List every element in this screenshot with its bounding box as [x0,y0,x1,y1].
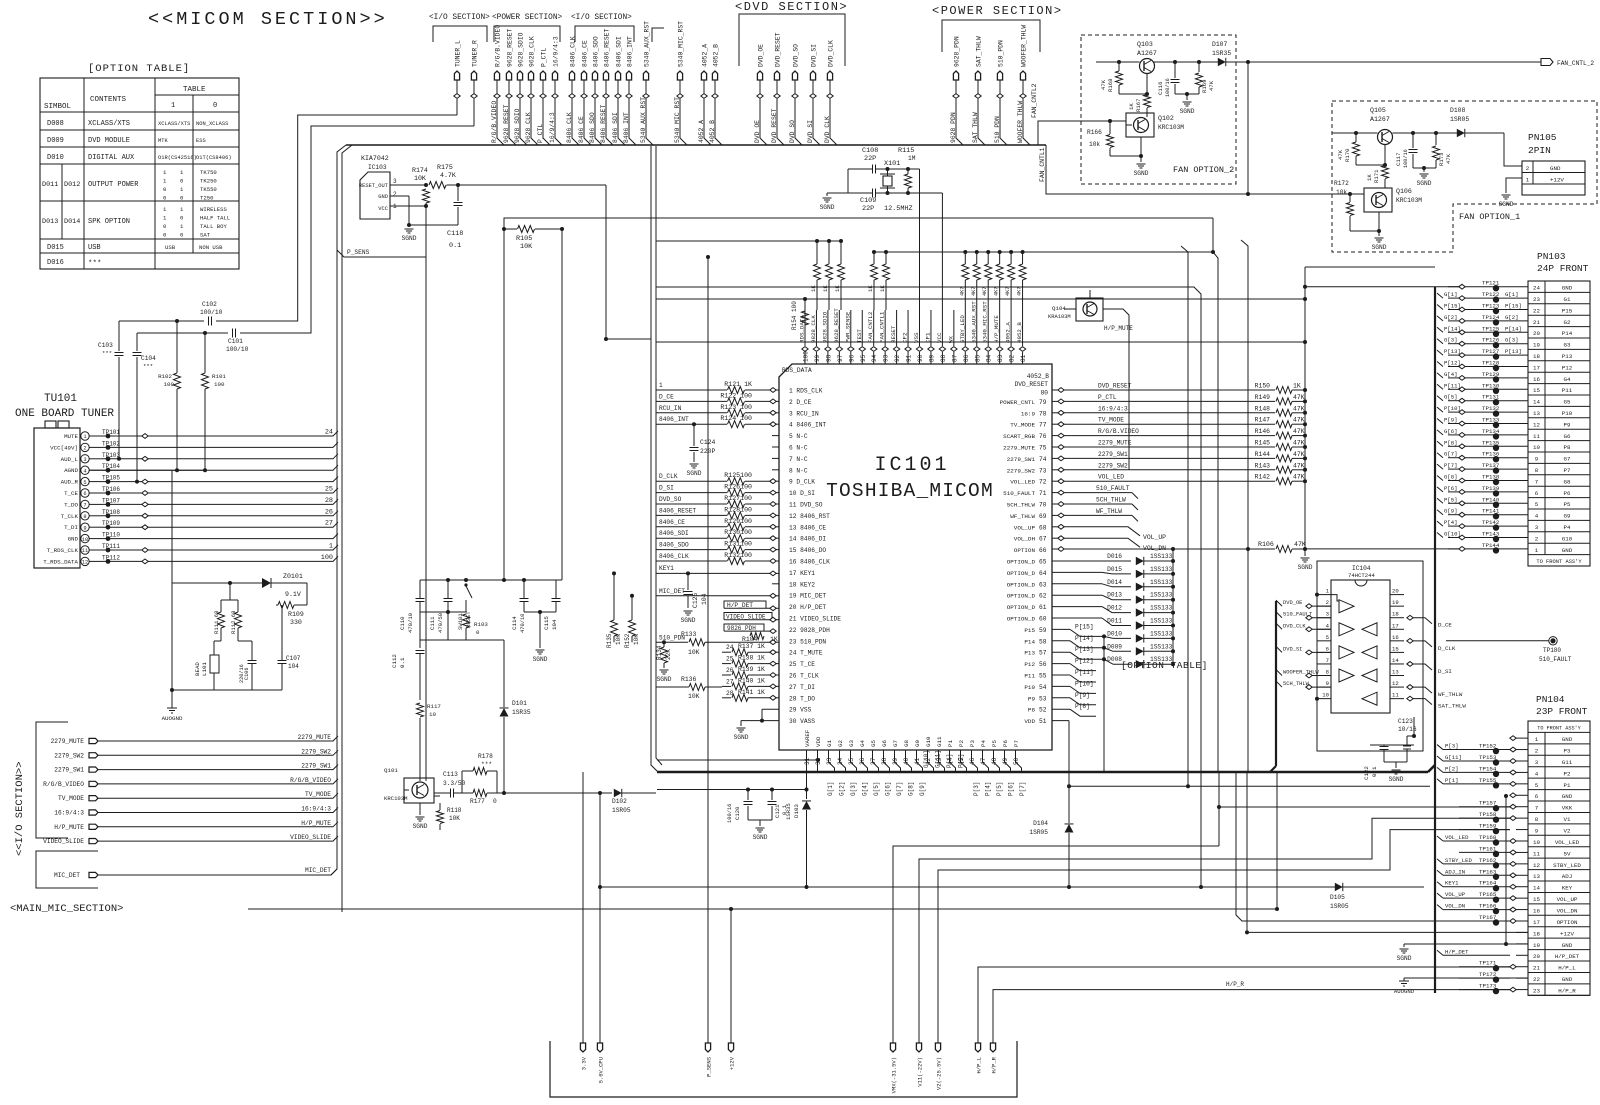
svg-text:AGND: AGND [64,467,78,474]
IC104 pin 4 left [1317,622,1331,629]
svg-text:XCLASS/XTS: XCLASS/XTS [158,121,190,127]
svg-text:8406_CLK: 8406_CLK [570,36,577,67]
svg-text:A1267: A1267 [1370,116,1390,123]
IC101 top pin 90 [913,169,924,364]
svg-text:R101: R101 [212,373,226,380]
resistor R169 47K [1196,62,1216,94]
svg-text:P4: P4 [980,740,987,747]
svg-text:G1: G1 [1564,296,1571,303]
svg-text:AUOGND: AUOGND [1394,988,1415,995]
svg-text:OPTION_D: OPTION_D [1007,581,1036,588]
svg-text:SGND: SGND [1397,955,1412,962]
svg-text:2: 2 [1535,535,1539,542]
svg-text:R143: R143 [1255,462,1271,469]
IC104 pin 7 left [1317,657,1331,664]
svg-text:KIA7042: KIA7042 [361,155,389,162]
svg-text:2279_MUTE: 2279_MUTE [298,734,332,741]
ground AUOGND PN104 22 [1394,978,1528,995]
test point TP136 row [1437,451,1528,463]
net label G[1] [827,782,834,796]
connector pin 4052_A [698,44,711,145]
wire reset rail to C112 [419,640,421,648]
IC104 pin 1 left [1317,588,1331,595]
PN104 row 13 [1437,868,1528,880]
svg-text:RDS_DATA: RDS_DATA [799,315,806,343]
svg-text:VOL_UP: VOL_UP [1445,891,1466,898]
svg-text:1SS133: 1SS133 [1150,618,1173,625]
svg-text:1SR35: 1SR35 [512,709,531,716]
connector pin TUNER_R [471,40,479,126]
IC101 bottom pin 39 G7 [892,740,901,772]
svg-text:VOL_DN: VOL_DN [1557,907,1578,914]
net label G[3] [850,782,857,796]
IC101 right pin 67 VOL_DH [1014,536,1047,543]
svg-text:100: 100 [321,554,333,562]
net label P[6] [1008,782,1015,796]
transistor Q106 KRC103M [1364,185,1422,212]
svg-text:1K: 1K [1128,103,1135,110]
tuner pin 1 MUTE [64,429,338,441]
svg-text:8: 8 [1535,467,1539,474]
section label POWER SECTION small [492,14,563,22]
svg-text:8406_CE: 8406_CE [582,40,589,67]
svg-text:11: 11 [1533,850,1540,857]
svg-text:OUTPUT POWER: OUTPUT POWER [88,181,139,189]
svg-text:10K: 10K [520,243,533,251]
test point TP180 510_FAULT [1539,637,1572,663]
svg-text:24 T_MUTE: 24 T_MUTE [789,650,823,657]
svg-text:H/P_R: H/P_R [991,1056,998,1073]
svg-text:D_CE: D_CE [659,393,674,400]
svg-text:5CH_THLW: 5CH_THLW [1283,681,1310,687]
svg-text:P[15]: P[15] [1505,303,1522,310]
svg-text:G10: G10 [1562,535,1573,542]
connector pin 8406_RESET [600,28,613,145]
svg-text:G[2]: G[2] [1505,314,1518,321]
io row 16:9/4:3 [54,806,338,817]
svg-text:G[3]: G[3] [1505,337,1518,344]
svg-text:TP104: TP104 [102,463,120,470]
svg-text:20: 20 [1533,953,1540,960]
wire Q103 collector rail [1096,60,1140,64]
svg-text:SGND: SGND [1180,108,1195,115]
IC104 pin 6 left [1317,645,1331,652]
svg-text:D_CE: D_CE [1438,622,1452,629]
wire IC104 input 5CH_THLW [1276,681,1331,689]
svg-text:13: 13 [1533,410,1540,417]
IC101 right pin 59 P15 [1024,627,1046,634]
svg-text:4: 4 [1535,770,1539,777]
svg-text:R126100: R126100 [724,484,752,491]
IC101 right pin 51 VDD [1024,718,1046,725]
wire VIDEO_SLIDE row label [724,613,779,623]
svg-text:[OPTION TABLE]: [OPTION TABLE] [1121,660,1208,671]
ground AUOGND [162,690,183,722]
wire IC104 input WOOFER_THLW [1276,670,1331,678]
svg-text:4K7: 4K7 [994,287,1000,296]
svg-text:D015: D015 [47,244,64,252]
svg-text:7: 7 [83,503,86,509]
PN104 row 22 [1459,971,1528,983]
svg-text:R/G/B_VIDEO: R/G/B_VIDEO [290,777,331,784]
net label G[2] [839,782,846,796]
svg-text:6: 6 [1326,645,1329,652]
PN104 row 11 [1459,845,1528,857]
svg-text:10K: 10K [688,693,700,700]
IC101 left pin 23 510_PDN [789,638,826,645]
svg-text:G5: G5 [870,740,877,747]
wire R118 net [434,795,440,797]
wire R105 branch down [503,229,505,580]
svg-text:2279_SW2: 2279_SW2 [1007,467,1036,474]
resistor R154 100 [791,297,809,330]
svg-text:ADJ_IN: ADJ_IN [1445,868,1465,875]
svg-text:D008: D008 [47,120,64,128]
svg-text:TOSHIBA_MICOM: TOSHIBA_MICOM [826,480,994,502]
connector pin WOOFER_THLW [1017,25,1030,145]
svg-text:47K: 47K [1293,405,1305,412]
diode D008 1SS133 [1107,656,1175,668]
svg-text:P8: P8 [1564,444,1571,451]
svg-text:H/P_L: H/P_L [1558,965,1576,972]
svg-text:17 KEY1: 17 KEY1 [789,570,815,577]
IC101 left pin 2 D_CE [789,399,812,406]
resistor R144 47K [1255,451,1307,462]
test point TP134 row [1437,428,1528,440]
resistor R105 10K [502,226,564,252]
wire y887 long [600,886,1424,888]
svg-text:4K7: 4K7 [1005,287,1011,296]
svg-text:C123: C123 [1398,718,1413,725]
svg-text:SAT: SAT [200,232,211,239]
svg-text:C111: C111 [429,616,436,630]
svg-text:51: 51 [1039,718,1047,725]
svg-text:10k: 10k [1089,141,1100,148]
svg-text:2279_SW1: 2279_SW1 [54,767,84,774]
resistor R101 100 [202,333,227,472]
PN104 row 2 [1437,743,1528,755]
svg-text:11: 11 [1533,433,1540,440]
wire 9828_PDH row label [724,624,778,643]
IC101 right pin 73 2279_SW2 [1007,467,1047,474]
svg-text:H/P_DET: H/P_DET [1445,948,1469,955]
resistor R143 47K [1255,462,1307,473]
svg-text:14: 14 [1533,885,1540,892]
svg-text:FAN_CNTL2: FAN_CNTL2 [1031,83,1038,118]
svg-text:8406_RESET: 8406_RESET [659,507,696,514]
wire IC104 output D_SI [1407,662,1452,675]
svg-text:P10: P10 [1024,684,1035,691]
svg-text:G11: G11 [1562,759,1573,766]
svg-text:C115: C115 [543,616,550,630]
IC101 bottom pin 33 G1 [826,740,835,772]
wire V11 run [919,818,1510,1041]
diode D101 1SR35 [500,640,531,793]
svg-text:R128100: R128100 [724,506,752,513]
resistor R103 0 [463,614,489,640]
svg-text:D013: D013 [1107,592,1122,599]
svg-text:KEY1: KEY1 [659,565,674,572]
net label P[2] [958,754,965,768]
svg-text:D016: D016 [1107,553,1122,560]
test point TP135 row [1437,439,1528,451]
svg-text:TP109: TP109 [102,520,120,527]
svg-text:VDD: VDD [1024,718,1035,725]
svg-text:C109: C109 [860,197,876,205]
resistor R173 47K [1433,133,1453,168]
wire x600 vertical [598,793,602,889]
svg-text:D101: D101 [512,700,527,707]
wire row P[9] [1052,692,1096,705]
svg-text:1M: 1M [908,155,916,162]
svg-text:ESS: ESS [196,138,206,144]
IC104 pin 8 left [1317,669,1331,676]
svg-text:50: 50 [1013,757,1020,765]
test point TP142 row [1437,519,1528,531]
resistor R146 47K [1255,428,1307,439]
svg-text:G2: G2 [1564,319,1571,326]
svg-text:9828_CLK: 9828_CLK [810,315,817,343]
svg-text:P1: P1 [1564,782,1571,789]
svg-text:SAT_THLW: SAT_THLW [1438,703,1466,710]
svg-text:R142: R142 [1255,474,1271,481]
svg-text:13: 13 [1533,873,1540,880]
IC101 bottom pin 32 VDD [815,736,822,772]
wire Q103 base [1119,74,1149,96]
transistor Q101 KRC103M [384,767,434,803]
test point TP123 row [1437,303,1528,315]
svg-text:D_CLK: D_CLK [659,473,678,480]
svg-text:104: 104 [701,593,708,605]
svg-text:R127100: R127100 [724,495,752,502]
svg-text:9.1V: 9.1V [285,591,301,598]
wire x562 down [561,229,563,580]
svg-text:58: 58 [1039,638,1047,645]
svg-text:P3: P3 [969,740,976,747]
svg-text:G[2]: G[2] [839,782,846,796]
svg-text:89: 89 [928,354,935,362]
svg-text:41: 41 [914,757,921,765]
IC104 pin 5 left [1317,634,1331,641]
svg-text:65: 65 [1039,559,1047,566]
svg-text:P[8]: P[8] [1075,703,1090,710]
svg-text:Q106: Q106 [1396,188,1412,195]
wire VCC down to Q101 area [425,257,427,781]
svg-text:P14: P14 [1024,638,1035,645]
svg-text:VCC: VCC [936,332,943,343]
svg-text:10 D_SI: 10 D_SI [789,490,815,497]
wire PN105 +12V to SGND [1506,178,1522,193]
svg-text:SGND: SGND [657,676,672,683]
fan option 1 dashed box [1332,101,1597,252]
wire right row 2279_SW1 [1052,451,1275,461]
IC101 right pin 60 OPTION_D [1007,616,1047,623]
IC101 left pin 30 VASS [789,718,815,725]
connector pin 9628_CLK [525,36,538,145]
svg-text:WOOFER_THLW: WOOFER_THLW [1283,670,1319,676]
svg-text:40: 40 [903,757,910,765]
svg-text:1K: 1K [834,285,841,292]
wire Q103 emitter to D107 [1154,60,1218,64]
svg-text:C114: C114 [511,616,518,630]
svg-text:VOL_UP: VOL_UP [1143,534,1166,541]
svg-text:104: 104 [288,663,299,670]
svg-text:9828_SDIO: 9828_SDIO [821,311,828,343]
ground SGND C124 [687,464,702,477]
svg-text:5CH_THLW: 5CH_THLW [1096,497,1126,504]
svg-text:76: 76 [1039,433,1047,440]
resistor R155 1K [810,239,821,310]
svg-text:1: 1 [1535,736,1539,743]
IC104 pin 16 right [1390,634,1404,641]
resistor R127 100 [656,495,779,508]
svg-text:100/16: 100/16 [1165,78,1171,97]
svg-text:PN103: PN103 [1537,251,1566,262]
svg-text:P9: P9 [1028,695,1036,702]
capacitor C108 22P [848,147,908,174]
transistor Q102 KRC103M [1126,108,1184,137]
resistor R149 47K [1255,394,1307,405]
wire IC104 output SAT_THLW [1407,696,1467,709]
svg-text:5: 5 [1326,634,1329,641]
svg-text:VSS: VSS [913,332,920,343]
svg-text:KRC103M: KRC103M [1158,124,1184,131]
resistor R139 1K [722,666,779,679]
svg-text:71: 71 [1039,490,1047,497]
svg-text:<I/O SECTION>: <I/O SECTION> [429,14,490,22]
svg-text:STBY_LED: STBY_LED [1445,857,1472,864]
svg-text:75: 75 [1039,445,1047,452]
terminal VMX(-31.5V) [890,1041,897,1093]
svg-text:R172: R172 [1334,180,1349,187]
svg-text:21: 21 [1533,319,1540,326]
svg-text:<I/O SECTION>: <I/O SECTION> [571,14,632,22]
svg-text:47K: 47K [1293,451,1305,458]
diode D108 1SR05 [1450,107,1504,137]
capacitor C112 0.1 [391,651,425,681]
test point TP122 row [1437,291,1528,303]
svg-text:19: 19 [1392,599,1399,606]
capacitor C123 10/16 [1398,718,1417,733]
svg-text:6: 6 [1535,490,1539,497]
svg-text:5: 5 [83,480,86,486]
connector pin 5340_AUX_RST [640,21,653,145]
svg-text:R139 1K: R139 1K [738,666,765,673]
svg-text:G10: G10 [925,736,932,747]
svg-text:POWER_CNTL: POWER_CNTL [1000,399,1036,406]
svg-text:VOL_DH: VOL_DH [1014,536,1036,543]
wire IC104 output WF_THLW [1407,685,1463,698]
svg-text:37: 37 [870,757,877,765]
svg-text:DVD_RESET: DVD_RESET [1015,381,1049,388]
svg-text:NON_XCLASS: NON_XCLASS [196,121,228,127]
svg-text:G[7]: G[7] [1444,451,1457,458]
svg-text:1K: 1K [1293,383,1301,390]
wire front bus vertical [1434,287,1436,993]
wire right row DVD_RESET [1052,383,1275,393]
svg-text:4K7: 4K7 [1017,287,1023,296]
connector pin SAT_THLW [972,36,985,145]
tuner pin 12 T_RDS_DATA [43,554,338,566]
connector PN103 table [1528,281,1590,566]
svg-text:D_CLK: D_CLK [1438,645,1456,652]
wire y790 [657,788,809,792]
tuner pin 5 AUD_R [61,475,338,486]
svg-text:17: 17 [1533,919,1540,926]
svg-text:Z0101: Z0101 [283,573,303,580]
svg-text:22 9828_PDH: 22 9828_PDH [789,627,830,634]
wire MIC_DET row [656,588,779,598]
svg-text:O1T(CS8406): O1T(CS8406) [196,155,232,161]
resistor R162 4K7 [982,250,992,310]
svg-text:V2(-25.5V): V2(-25.5V) [936,1057,943,1090]
svg-text:R118: R118 [447,807,462,814]
svg-text:1K: 1K [822,285,829,292]
svg-text:4052_B: 4052_B [1027,373,1050,380]
svg-text:28: 28 [325,497,333,505]
svg-text:12: 12 [1392,680,1399,687]
svg-text:20: 20 [1392,588,1399,595]
test point TP144 row [1448,542,1528,554]
svg-text:FAN_CNTL_2: FAN_CNTL_2 [1557,60,1594,67]
IC101 left pin 4 8406_INT [789,422,826,429]
IC101 bottom pin 31 VAREF [804,729,811,772]
IC101 left pin 8 N-C [772,467,808,474]
svg-text:WF_THLW: WF_THLW [1010,513,1035,520]
capacitor C120 100/16 [727,790,753,824]
svg-text:13: 13 [1392,669,1399,676]
svg-text:R102: R102 [158,373,172,380]
svg-text:15: 15 [1533,387,1540,394]
svg-text:104: 104 [551,619,558,630]
svg-text:22: 22 [1533,307,1540,314]
ground SGND Q102 [1134,164,1149,177]
capacitor C107 104 [278,605,301,690]
io row TV_MODE [58,791,338,802]
IC104 pin 12 right [1390,680,1404,687]
svg-text:R152: R152 [624,633,631,648]
svg-text:H/P_MUTE: H/P_MUTE [54,824,84,831]
wire crystal CF2 [908,168,920,170]
resistor R172 10k [1334,180,1354,224]
ground SGND R134 [657,670,672,683]
svg-text:14: 14 [1392,657,1399,664]
IC104 pin 19 right [1390,599,1404,606]
svg-text:7: 7 [1535,805,1539,812]
io row H/P_MUTE [54,820,338,831]
svg-text:G6: G6 [881,740,888,747]
svg-text:D103: D103 [793,804,800,818]
svg-text:OPTION_D: OPTION_D [1007,604,1036,611]
svg-text:CF2: CF2 [902,332,909,343]
svg-text:P[14]: P[14] [1075,635,1094,642]
resistor R125 100 [656,472,779,485]
wire PN104 row wires left [0,0,1,1]
svg-text:91: 91 [906,354,913,362]
svg-text:R135: R135 [606,633,613,648]
svg-text:510_FAULT: 510_FAULT [1003,490,1035,497]
svg-text:MUTE: MUTE [64,433,78,440]
wire right row WF_THLW [1052,508,1138,522]
svg-text:P[10]: P[10] [1444,405,1461,412]
svg-text:67: 67 [1039,536,1047,543]
capacitor C117 100/16 [1395,133,1418,168]
svg-text:P1: P1 [947,740,954,747]
IC101 right pin 65 OPTION_D [1007,559,1047,566]
IC101 right pin 61 OPTION_D [1007,604,1047,611]
svg-text:5340_MIC_RST: 5340_MIC_RST [982,301,989,343]
svg-text:2279_SW2: 2279_SW2 [54,752,84,759]
